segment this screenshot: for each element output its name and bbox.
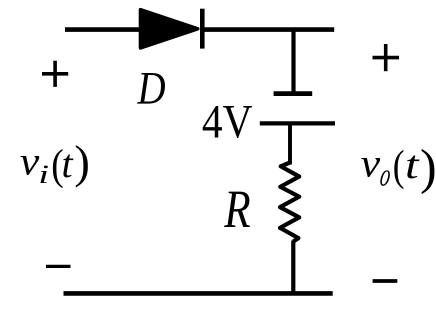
svg-text:): ) (420, 138, 436, 194)
wire top-right (cathode to output node) (202, 27, 334, 32)
svg-text:R: R (223, 178, 250, 239)
svg-text:i: i (38, 160, 49, 189)
wire: battery stem from top wire (291, 30, 295, 94)
battery plate bottom (long, 4V) (260, 121, 335, 125)
diode D (filled triangle) (141, 10, 198, 48)
svg-text:v: v (20, 140, 40, 184)
label v_i(t) (input voltage) (20, 137, 90, 189)
plus sign left (input polarity +) (42, 61, 68, 87)
diode D cathode bar (200, 9, 205, 49)
svg-text:D: D (137, 63, 166, 114)
minus sign right (output polarity -) (373, 279, 398, 283)
svg-text:v: v (361, 142, 381, 186)
wire: resistor to bottom rail (291, 241, 295, 294)
svg-text:t: t (62, 141, 74, 186)
wire: battery to resistor (288, 123, 292, 164)
svg-text:4V: 4V (202, 95, 253, 149)
resistor R zigzag (280, 163, 299, 242)
plus sign right (output polarity +) (373, 44, 400, 71)
svg-text:(: ( (393, 142, 405, 190)
svg-text:): ) (74, 137, 90, 189)
wire top-left (input to diode anode) (65, 27, 141, 32)
minus sign left (input polarity -) (46, 265, 71, 268)
svg-text:t: t (405, 142, 420, 187)
label v_o(t) (output voltage) (361, 138, 436, 194)
battery plate top (short) (274, 91, 313, 96)
wire bottom rail (64, 291, 333, 296)
